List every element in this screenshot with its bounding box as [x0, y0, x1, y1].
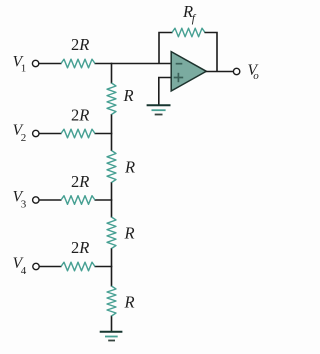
resistor R (ladder, between node A and node B): [107, 83, 116, 115]
wire: V1 terminal to 2R resistor: [39, 63, 62, 65]
resistor 2R (row 3): [61, 196, 95, 205]
wire: feedback tap up from inverting input: [159, 33, 173, 65]
terminal V2: [33, 130, 39, 136]
wire: row1 from 2R through node A to op-amp inverting input: [95, 63, 172, 65]
wire: op-amp noninverting input to ground stub: [159, 78, 171, 105]
resistor 2R (row 4): [61, 262, 95, 271]
svg-text:2R: 2R: [71, 105, 89, 124]
terminal Vo: [233, 68, 239, 74]
svg-text:2R: 2R: [71, 35, 89, 54]
terminal V3: [33, 197, 39, 203]
wire: node A down to ladder resistor R1: [111, 63, 113, 84]
svg-text:R: R: [124, 158, 135, 177]
op-amp U1: [171, 52, 206, 91]
svg-text:R: R: [124, 293, 135, 312]
ground (op-amp noninverting input): [147, 105, 171, 114]
wire: V3 terminal to 2R resistor: [39, 199, 61, 201]
svg-text:3: 3: [21, 198, 27, 210]
wire: V4 terminal to 2R resistor: [39, 266, 61, 268]
svg-text:R: R: [124, 224, 135, 243]
svg-text:R: R: [123, 86, 134, 105]
wire: V2 terminal to 2R resistor: [39, 133, 61, 135]
wire: row2 2R to node B: [95, 133, 113, 135]
resistor Rf (feedback): [172, 28, 205, 37]
svg-text:2R: 2R: [71, 172, 89, 191]
terminal V1: [32, 60, 38, 66]
wire: row3 2R to node C: [95, 199, 113, 201]
resistor R (ladder, between node B and node C): [107, 151, 116, 183]
svg-text:2R: 2R: [71, 238, 89, 257]
resistor R (ladder, between node C and node D): [107, 217, 116, 249]
pin label: noninverting input (+): [174, 77, 184, 79]
svg-text:o: o: [253, 70, 259, 82]
wire: feedback resistor down to output node: [205, 33, 218, 72]
wire: ladder resistor R3 to node D: [111, 248, 113, 287]
wire: op-amp output to Vo terminal: [206, 71, 234, 73]
wire: ladder resistor R2 to node C: [111, 182, 113, 218]
resistor 2R (row 2): [61, 129, 95, 138]
svg-text:2: 2: [21, 132, 27, 144]
svg-text:1: 1: [21, 63, 27, 75]
ground (bottom of ladder): [100, 332, 123, 341]
resistor 2R (row 1): [61, 59, 95, 68]
pin label: inverting input (-): [176, 63, 183, 65]
wire: node D resistor R4 down to ground: [111, 316, 113, 332]
resistor R (node D to ground): [107, 286, 116, 316]
wire: row4 2R to node D: [95, 266, 113, 268]
wire: ladder resistor R1 to node B: [111, 114, 113, 151]
svg-text:4: 4: [21, 265, 27, 277]
terminal V4: [33, 263, 39, 269]
